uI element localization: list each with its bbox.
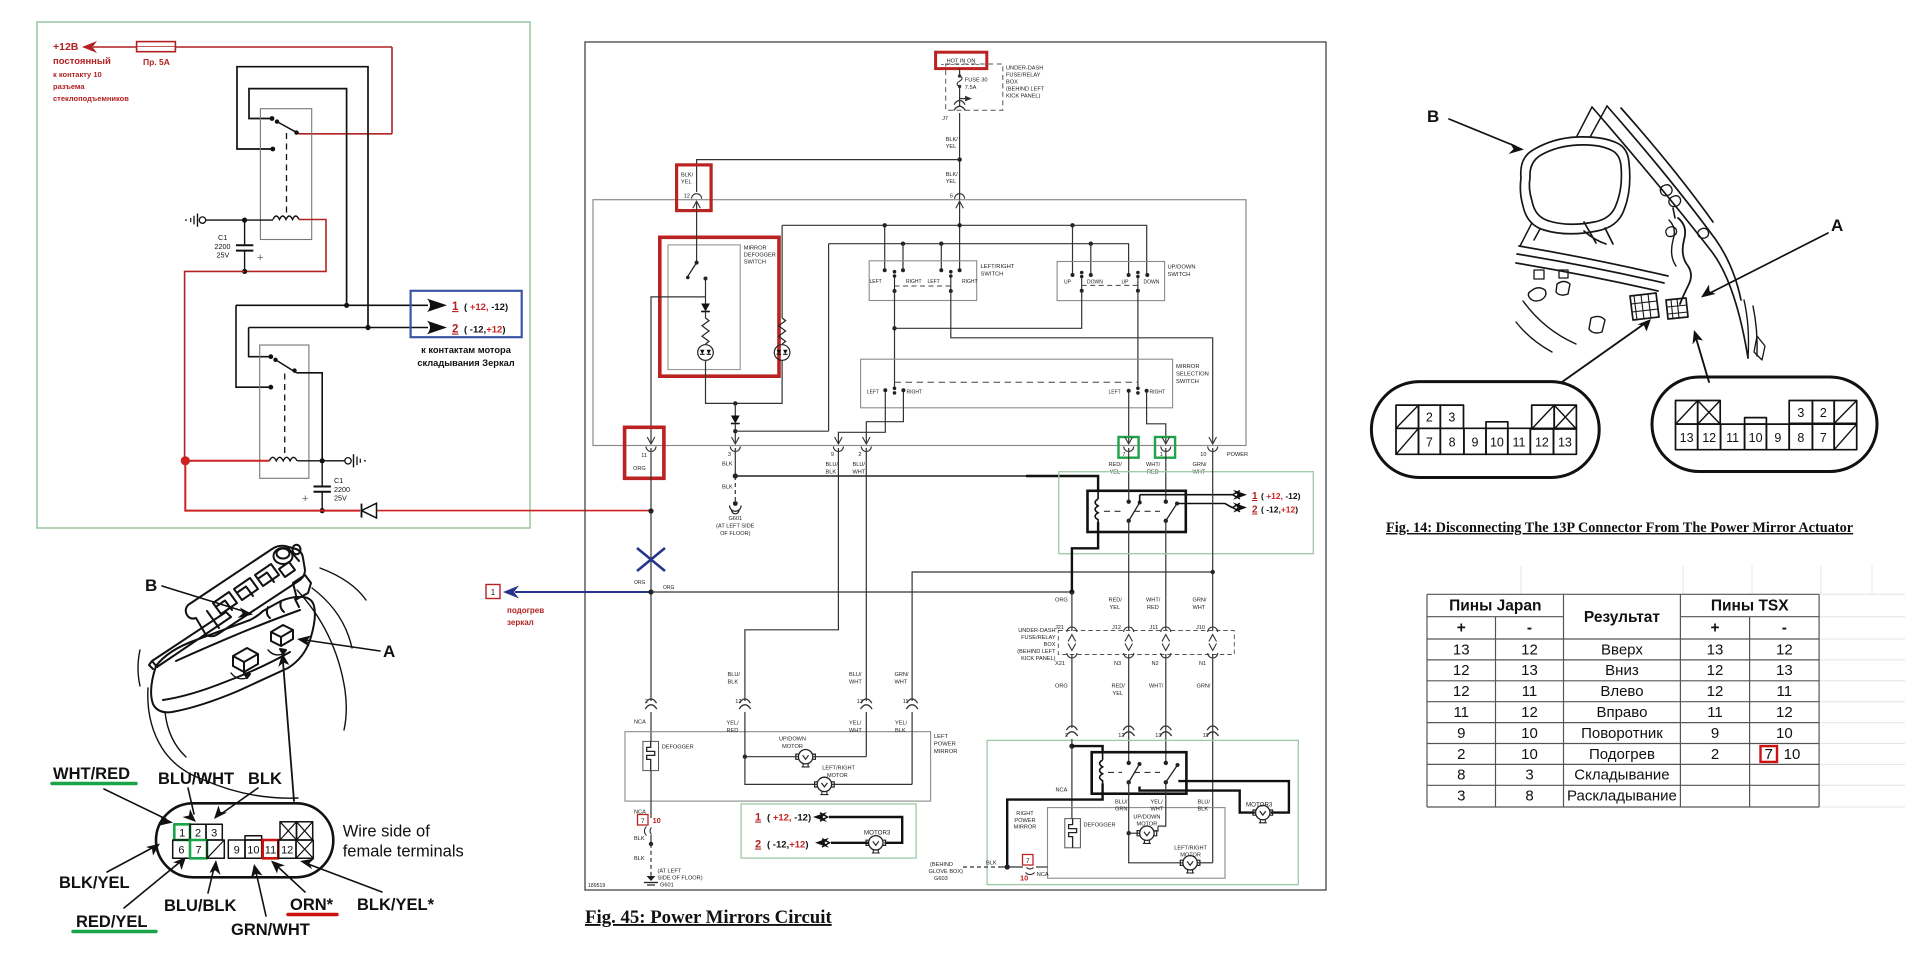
- svg-text:11: 11: [1707, 704, 1723, 721]
- wire LR pole2 to power pin 10: [951, 291, 1213, 443]
- svg-text:Вправо: Вправо: [1596, 704, 1647, 721]
- harness wire: [1678, 218, 1691, 304]
- svg-text:13: 13: [1680, 431, 1694, 445]
- svg-text:(BEHIND: (BEHIND: [930, 862, 953, 868]
- svg-text:2: 2: [755, 839, 761, 851]
- svg-text:BLK: BLK: [1198, 807, 1209, 813]
- svg-text:12: 12: [1453, 683, 1470, 700]
- svg-text:( -12,+12): ( -12,+12): [767, 840, 808, 851]
- panel border (green frame): [37, 22, 530, 528]
- svg-text:13: 13: [1521, 662, 1538, 679]
- svg-text:WHT: WHT: [1151, 807, 1164, 813]
- svg-text:BLK: BLK: [826, 470, 837, 476]
- svg-text:11: 11: [1726, 431, 1739, 445]
- svg-text:1: 1: [491, 588, 496, 597]
- svg-text:WHT: WHT: [1193, 605, 1206, 611]
- svg-text:SIDE OF FLOOR): SIDE OF FLOOR): [658, 876, 703, 882]
- svg-text:10: 10: [1020, 874, 1028, 883]
- mounting plate and screws: [1660, 185, 1708, 238]
- svg-text:FUSE 30: FUSE 30: [965, 78, 988, 84]
- svg-text:RED: RED: [1147, 470, 1159, 476]
- svg-text:SWITCH: SWITCH: [744, 260, 766, 266]
- relay K2 mechanical link (dashed): [284, 374, 286, 454]
- svg-text:GRN/WHT: GRN/WHT: [231, 921, 310, 939]
- svg-text:разъема: разъема: [53, 82, 85, 91]
- svg-text:стеклоподъемников: стеклоподъемников: [53, 94, 129, 103]
- leader from connector X2: [1696, 338, 1709, 382]
- wires J-box to right mirror connectors: [1071, 654, 1073, 728]
- svg-text:9: 9: [1457, 725, 1465, 742]
- svg-text:UNDER-DASH: UNDER-DASH: [1006, 66, 1043, 72]
- svg-text:7: 7: [641, 818, 645, 825]
- svg-text:9: 9: [234, 844, 240, 856]
- green frame (fold relay): [1059, 472, 1314, 554]
- svg-text:9: 9: [1472, 436, 1479, 450]
- svg-text:WHT: WHT: [849, 680, 862, 686]
- relay contacts (lower) on BLU/GRN leg: [1127, 761, 1131, 765]
- svg-text:C1: C1: [334, 476, 343, 485]
- door shut line: [1744, 300, 1757, 358]
- switch LEFT/RIGHT poles: [893, 270, 897, 274]
- svg-text:12: 12: [1707, 662, 1724, 679]
- svg-text:Складывание: Складывание: [1574, 767, 1669, 784]
- svg-text:LEFT/RIGHT: LEFT/RIGHT: [981, 264, 1015, 270]
- svg-text:12: 12: [1535, 436, 1549, 450]
- switch cutouts: [213, 564, 279, 614]
- wire 1 output (fold): [1140, 495, 1232, 503]
- svg-text:YEL: YEL: [1110, 605, 1121, 611]
- svg-text:Пр. 5А: Пр. 5А: [143, 57, 170, 67]
- wire red left to K2 coil: [185, 460, 269, 462]
- svg-text:BLK: BLK: [986, 861, 997, 867]
- svg-text:7: 7: [1026, 858, 1030, 865]
- svg-text:LEFT: LEFT: [928, 279, 940, 285]
- diagram outer frame: [585, 42, 1326, 890]
- svg-text:YEL/: YEL/: [849, 721, 862, 727]
- svg-text:YEL: YEL: [946, 179, 957, 185]
- wire coil right to ground: [297, 460, 344, 462]
- relay K2 body: [260, 345, 309, 478]
- relay K1 inner wire loop: [249, 89, 347, 306]
- svg-text:WHT/RED: WHT/RED: [53, 765, 130, 783]
- svg-text:10: 10: [1521, 746, 1538, 763]
- svg-text:DEFOGGER: DEFOGGER: [744, 253, 776, 259]
- svg-text:FUSE/RELAY: FUSE/RELAY: [1021, 635, 1056, 641]
- svg-text:13: 13: [1776, 662, 1793, 679]
- svg-text:YEL/: YEL/: [1151, 800, 1164, 806]
- svg-text:( -12,+12): ( -12,+12): [464, 325, 505, 336]
- wire BLK pin 3 to relay coil rail: [734, 448, 736, 476]
- switch UP/DOWN poles: [1080, 271, 1084, 275]
- connector box to fold motor (blue): [411, 291, 522, 337]
- svg-text:DEFOGGER: DEFOGGER: [1084, 823, 1116, 829]
- connector J7: [954, 100, 966, 110]
- svg-text:BLK: BLK: [895, 728, 906, 734]
- svg-text:+: +: [302, 493, 308, 505]
- wire LED2 to junction: [735, 360, 782, 403]
- svg-text:YEL/: YEL/: [895, 721, 908, 727]
- svg-text:BLU/: BLU/: [849, 672, 862, 678]
- relay box (fold relay lower): [1092, 752, 1187, 794]
- windowsill lines: [1519, 246, 1668, 276]
- svg-text:GRN/: GRN/: [1193, 598, 1207, 604]
- svg-text:7: 7: [1122, 452, 1125, 458]
- wire fold-relay coil to ORG: [1072, 522, 1098, 592]
- wire red: coil K1 to C1 bottom junction: [245, 220, 326, 272]
- svg-text:12: 12: [1776, 641, 1793, 658]
- ground G-left: [199, 217, 205, 223]
- wire fuse to J7 with flow arrow: [959, 87, 961, 107]
- relay K1 switch contacts: [270, 116, 275, 121]
- wire defogger sw to ORG pin 11: [651, 279, 706, 444]
- svg-text:BLK/: BLK/: [946, 172, 959, 178]
- zener D2: [701, 304, 710, 312]
- LED1 indicator: [698, 345, 714, 361]
- svg-text:WHT: WHT: [895, 680, 908, 686]
- svg-text:Подогрев: Подогрев: [1589, 746, 1655, 763]
- svg-text:LEFT/RIGHT: LEFT/RIGHT: [1174, 846, 1207, 852]
- svg-text:UP/DOWN: UP/DOWN: [779, 737, 806, 743]
- svg-text:POWER: POWER: [1227, 452, 1248, 458]
- a-pillar: [1592, 107, 1748, 358]
- svg-text:( +12, -12): ( +12, -12): [464, 302, 508, 313]
- svg-text:J7: J7: [942, 116, 948, 122]
- svg-text:3: 3: [1797, 406, 1804, 420]
- svg-text:7.5A: 7.5A: [965, 85, 977, 91]
- svg-text:MIRROR: MIRROR: [1176, 364, 1200, 370]
- svg-text:10: 10: [1490, 436, 1504, 450]
- defogger (left mirror): [643, 741, 659, 770]
- wire stubs down to relay K2 contacts: [236, 305, 271, 387]
- svg-text:A: A: [1831, 216, 1843, 235]
- svg-text:BLK: BLK: [722, 485, 733, 491]
- ground G-right: [345, 458, 351, 464]
- switch MIRROR SELECTION box: [861, 359, 1173, 408]
- svg-text:2: 2: [1426, 411, 1433, 425]
- svg-text:Пины TSX: Пины TSX: [1711, 598, 1789, 615]
- svg-text:( +12, -12): ( +12, -12): [1261, 491, 1301, 501]
- wire UD pole2 to selection switch: [1137, 291, 1139, 388]
- svg-text:к контактам мотора: к контактам мотора: [421, 345, 512, 355]
- svg-text:Результат: Результат: [1584, 609, 1661, 626]
- connector X1 (13P harness side): [1371, 382, 1599, 478]
- svg-text:BLK: BLK: [722, 462, 733, 468]
- relay contacts on WHT/RED: [1165, 448, 1167, 502]
- mirror mount: [1584, 222, 1613, 244]
- pin table faint sheet grid: [1521, 566, 1905, 807]
- svg-text:10: 10: [247, 844, 259, 856]
- wire 2 output (fold): [1178, 504, 1232, 508]
- mirror housing B: [1520, 137, 1629, 234]
- connector X (13P wire side): [156, 803, 333, 877]
- svg-text:GRN/: GRN/: [1197, 684, 1211, 690]
- svg-text:G603: G603: [934, 876, 948, 882]
- connector (13P harness side): [1630, 293, 1659, 320]
- svg-text:MOTOR3: MOTOR3: [1246, 802, 1273, 809]
- svg-text:ORG: ORG: [1055, 598, 1068, 604]
- clip under panel right: [293, 575, 311, 607]
- svg-text:YEL: YEL: [946, 144, 957, 150]
- wire coil to C1 junction: [206, 219, 273, 221]
- connector 7/10 NCA (right, red marks): [1023, 855, 1034, 866]
- svg-text:G601: G601: [728, 516, 742, 522]
- wire BLU/BLK pin 9 down: [745, 448, 839, 701]
- svg-text:UP/DOWN: UP/DOWN: [1133, 815, 1160, 821]
- relay K1 mechanical link (dashed): [286, 133, 288, 216]
- svg-text:RED/YEL: RED/YEL: [76, 913, 148, 931]
- wire LED1 to junction: [706, 360, 736, 403]
- door sketch: armrest panel A: [138, 568, 366, 798]
- under-dash fuse box (dashed): [946, 64, 1003, 110]
- svg-text:+: +: [257, 252, 263, 264]
- svg-text:BLK/: BLK/: [681, 173, 694, 179]
- svg-text:SWITCH: SWITCH: [1176, 379, 1199, 385]
- svg-text:8: 8: [1525, 788, 1533, 805]
- switch UP/DOWN box: [1057, 262, 1165, 301]
- switch-panel box (gray): [593, 200, 1246, 446]
- svg-text:10: 10: [1776, 725, 1793, 742]
- wire sel LEFT to pin 9: [838, 392, 885, 443]
- svg-text:12: 12: [1521, 641, 1538, 658]
- svg-text:DEFOGGER: DEFOGGER: [662, 745, 694, 751]
- svg-text:LEFT: LEFT: [1109, 390, 1121, 396]
- svg-text:7: 7: [1765, 746, 1773, 763]
- svg-text:UP: UP: [1064, 280, 1072, 286]
- svg-text:WHT: WHT: [853, 470, 866, 476]
- LED2 indicator: [774, 345, 790, 361]
- svg-text:Wire side of: Wire side of: [343, 823, 431, 841]
- svg-text:7: 7: [1820, 431, 1827, 445]
- svg-text:ORG: ORG: [633, 466, 646, 472]
- svg-text:12: 12: [1702, 431, 1716, 445]
- svg-text:9: 9: [1774, 431, 1781, 445]
- svg-text:Пины Japan: Пины Japan: [1449, 598, 1541, 615]
- svg-text:12: 12: [1707, 683, 1724, 700]
- svg-text:GRN: GRN: [1115, 807, 1127, 813]
- svg-text:+: +: [1457, 620, 1466, 637]
- wire BLU/WHT pin 2 down: [865, 448, 867, 701]
- svg-text:3: 3: [1525, 767, 1533, 784]
- svg-text:Поворотник: Поворотник: [1581, 725, 1663, 742]
- no-connection cross (blue X): [637, 548, 665, 571]
- diode D1: [361, 504, 363, 518]
- svg-text:GRN/: GRN/: [895, 672, 909, 678]
- svg-text:UNDER-DASH: UNDER-DASH: [1018, 628, 1055, 634]
- svg-text:DOWN: DOWN: [1144, 280, 1160, 286]
- svg-text:YEL: YEL: [1110, 470, 1121, 476]
- wire 2 to fold-motor (black): [249, 327, 428, 329]
- svg-text:10: 10: [1749, 431, 1763, 445]
- wire ORG trunk below pin 11: [650, 448, 652, 701]
- svg-text:12: 12: [1453, 662, 1470, 679]
- svg-text:зеркал: зеркал: [507, 618, 534, 627]
- diode D3: [734, 403, 736, 415]
- svg-text:189519: 189519: [588, 883, 605, 889]
- wire stubs into left/right switch: [884, 225, 886, 270]
- connector block 1: [233, 648, 258, 672]
- svg-text:2: 2: [1711, 746, 1719, 763]
- wire подогрев line (blue): [517, 591, 651, 593]
- node red junction: [181, 456, 190, 465]
- svg-text:+12В: +12В: [53, 41, 79, 53]
- svg-text:N3: N3: [1114, 661, 1121, 667]
- svg-text:1: 1: [755, 812, 761, 824]
- svg-text:YEL/: YEL/: [727, 721, 740, 727]
- svg-text:KICK PANEL): KICK PANEL): [1021, 656, 1056, 662]
- connector block 2: [271, 625, 293, 646]
- connector pin 11 (red boxed): [625, 427, 664, 478]
- svg-text:DOWN: DOWN: [1087, 280, 1103, 286]
- svg-text:RED/: RED/: [1109, 462, 1123, 468]
- svg-text:POWER: POWER: [934, 742, 956, 748]
- svg-text:RED: RED: [1147, 605, 1159, 611]
- svg-text:RED/: RED/: [1109, 598, 1123, 604]
- svg-text:2: 2: [195, 827, 201, 839]
- door body contours: [297, 590, 346, 730]
- knob: [274, 548, 293, 564]
- wire BLK/YEL from J7 to rail: [959, 113, 961, 200]
- svg-text:MIRROR: MIRROR: [934, 749, 958, 755]
- svg-text:11: 11: [265, 844, 276, 856]
- fuse FUSE30 7.5A: [959, 69, 961, 75]
- svg-text:7: 7: [195, 844, 201, 856]
- svg-text:Fig. 14: Disconnecting The 13P: Fig. 14: Disconnecting The 13P Connector…: [1386, 520, 1854, 536]
- switch LEFT/RIGHT box: [869, 261, 977, 301]
- svg-text:NCA: NCA: [1056, 788, 1068, 794]
- wire NCA through defogger to G601: [650, 771, 652, 818]
- svg-text:(AT LEFT: (AT LEFT: [658, 869, 682, 875]
- wire ORG down to J21: [1071, 592, 1073, 631]
- svg-text:3: 3: [211, 827, 217, 839]
- svg-text:9: 9: [831, 452, 834, 458]
- relay K2 coil: [269, 457, 297, 461]
- svg-text:NCA: NCA: [1037, 872, 1049, 878]
- svg-text:постоянный: постоянный: [53, 56, 111, 67]
- svg-text:LEFT: LEFT: [867, 390, 879, 396]
- svg-text:2: 2: [452, 324, 458, 336]
- svg-text:6: 6: [178, 844, 184, 856]
- svg-text:BOX: BOX: [1044, 642, 1056, 648]
- svg-text:BLK: BLK: [634, 836, 645, 842]
- svg-text:3: 3: [728, 452, 731, 458]
- svg-text:8: 8: [1797, 431, 1804, 445]
- motor MOTOR3 (right): [1253, 805, 1273, 822]
- wire GRN/WHT pin10 down: [1212, 448, 1214, 631]
- capacitor C1 (upper): [242, 218, 247, 223]
- svg-text:13: 13: [1453, 641, 1470, 658]
- resistor R1: [702, 318, 709, 344]
- svg-text:12: 12: [281, 844, 293, 856]
- svg-text:HOT IN ON: HOT IN ON: [947, 58, 976, 64]
- relay coil (upper fold relay): [1095, 491, 1098, 522]
- connector X2 (actuator side): [1652, 377, 1877, 472]
- svg-text:LEFT: LEFT: [870, 279, 882, 285]
- svg-text:C1: C1: [218, 233, 227, 242]
- svg-text:WHT: WHT: [1193, 470, 1206, 476]
- door inner panel shapes: [1528, 288, 1546, 301]
- connector pin 1 (green boxed): [1155, 437, 1175, 458]
- svg-text:11: 11: [1453, 704, 1469, 721]
- svg-text:UP: UP: [1122, 280, 1130, 286]
- svg-text:13: 13: [1558, 436, 1572, 450]
- svg-text:1: 1: [452, 301, 459, 313]
- fuse Пр.5А: [137, 42, 176, 52]
- trim strip left: [149, 612, 231, 669]
- svg-text:(BEHIND LEFT: (BEHIND LEFT: [1017, 649, 1056, 655]
- svg-text:GRN/: GRN/: [1193, 462, 1207, 468]
- wire stubs into up/down switch: [1072, 225, 1074, 275]
- wire sel RIGHT(r) to pin 1: [1147, 393, 1166, 444]
- leader from connector X1: [1562, 324, 1644, 382]
- svg-text:MIRROR: MIRROR: [744, 246, 767, 252]
- svg-text:BLK: BLK: [634, 856, 645, 862]
- mirror box RIGHT POWER MIRROR: [1048, 808, 1226, 879]
- svg-text:MOTOR: MOTOR: [782, 744, 803, 750]
- svg-text:RED: RED: [727, 728, 739, 734]
- wire NCA to defogger (right): [1071, 746, 1073, 819]
- svg-text:13: 13: [1707, 641, 1724, 658]
- svg-text:RIGHT: RIGHT: [906, 279, 922, 285]
- svg-text:SWITCH: SWITCH: [1168, 272, 1191, 278]
- mirror sketch: [1516, 106, 1765, 360]
- quarter window frame: [1520, 106, 1607, 246]
- svg-text:25V: 25V: [217, 251, 230, 260]
- switch MIRROR DEFOGGER box (red): [660, 237, 779, 376]
- svg-text:11: 11: [1777, 683, 1793, 700]
- svg-text:BLU/: BLU/: [1198, 800, 1211, 806]
- relay box (fold relay upper): [1026, 476, 1098, 491]
- svg-text:SELECTION: SELECTION: [1176, 372, 1209, 378]
- wire 1 to fold-motor (black): [236, 304, 428, 306]
- mirror box LEFT POWER MIRROR: [625, 732, 931, 801]
- motor MOTOR3 reference (green box): [741, 804, 916, 858]
- svg-text:N2: N2: [1152, 661, 1159, 667]
- defogger (right mirror): [1065, 819, 1081, 848]
- connector (actuator side): [1666, 298, 1688, 319]
- svg-text:25V: 25V: [334, 494, 347, 503]
- svg-text:1: 1: [179, 827, 185, 839]
- svg-text:Влево: Влево: [1600, 683, 1643, 700]
- pin numbers: [178, 827, 293, 856]
- wire LR pole1 to selection switch: [894, 291, 896, 388]
- svg-text:YEL: YEL: [1113, 691, 1124, 697]
- svg-text:к контакту 10: к контакту 10: [53, 70, 102, 79]
- svg-text:X21: X21: [1055, 661, 1065, 667]
- svg-text:BLK/YEL: BLK/YEL: [59, 874, 130, 892]
- svg-text:BLK: BLK: [248, 770, 282, 788]
- svg-text:11: 11: [1513, 436, 1526, 450]
- wire sel LEFT(r) to pin 7: [1128, 393, 1130, 444]
- svg-text:2: 2: [1820, 406, 1827, 420]
- svg-text:12: 12: [684, 194, 690, 200]
- polarity tab: [245, 836, 262, 840]
- svg-text:MOTOR: MOTOR: [827, 773, 848, 779]
- svg-text:10: 10: [1784, 746, 1801, 763]
- wire GRN/WHT power spur: [912, 572, 1213, 701]
- svg-text:UP/DOWN: UP/DOWN: [1168, 265, 1196, 271]
- svg-text:MIRROR: MIRROR: [1014, 825, 1037, 831]
- svg-text:WHT/: WHT/: [1149, 684, 1164, 690]
- svg-text:складывания Зеркал: складывания Зеркал: [417, 358, 514, 368]
- switch UP/DOWN contacts: [1071, 273, 1075, 277]
- svg-text:Fig. 45: Power Mirrors Circuit: Fig. 45: Power Mirrors Circuit: [585, 907, 832, 928]
- svg-text:Вверх: Вверх: [1601, 641, 1643, 658]
- svg-text:female terminals: female terminals: [343, 843, 464, 861]
- wire rail B riser from indicator diode: [828, 244, 830, 432]
- pin cells bottom row: [173, 840, 190, 858]
- svg-text:ORN*: ORN*: [290, 896, 334, 914]
- svg-text:A: A: [383, 642, 395, 661]
